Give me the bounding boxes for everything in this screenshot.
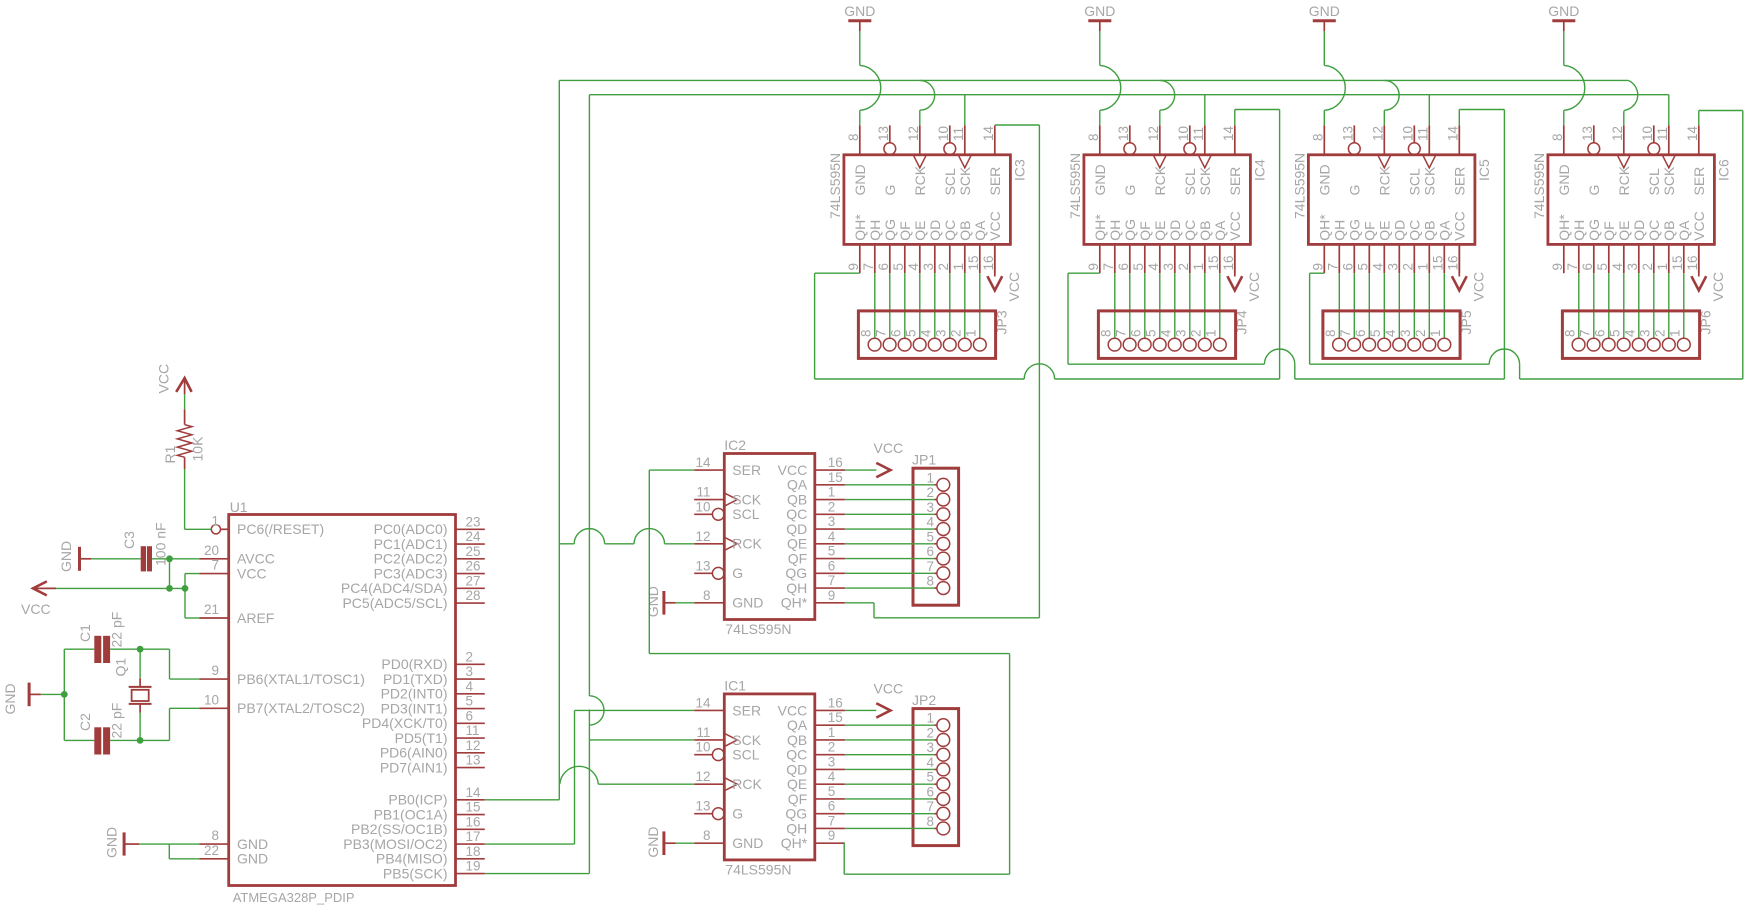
svg-text:PD0(RXD): PD0(RXD) <box>381 656 447 672</box>
pin 3 of JP3 <box>934 329 957 351</box>
svg-text:5: 5 <box>1368 329 1383 337</box>
svg-text:22 pF: 22 pF <box>109 703 125 739</box>
svg-text:QD: QD <box>786 761 807 777</box>
svg-text:2: 2 <box>828 499 836 514</box>
svg-text:G: G <box>1122 185 1138 196</box>
svg-text:C2: C2 <box>77 713 93 731</box>
pin 3 QD of IC1 <box>786 754 845 777</box>
svg-text:4: 4 <box>919 329 934 337</box>
power VCC at IC1 pin 16 <box>874 680 904 717</box>
connector JP6 header <box>1562 310 1713 358</box>
pin 4 QE of IC5 <box>1370 221 1392 274</box>
svg-text:VCC: VCC <box>874 680 904 696</box>
pin 11 PD5(T1) of U1 <box>395 723 485 746</box>
svg-text:1: 1 <box>951 263 966 271</box>
svg-text:16: 16 <box>1221 255 1236 270</box>
wire IC1 QF to JP2 pin 6 <box>845 798 937 800</box>
pin 2 of JP4 <box>1189 329 1212 351</box>
svg-text:IC4: IC4 <box>1251 159 1267 181</box>
svg-text:8: 8 <box>703 828 711 843</box>
svg-text:5: 5 <box>466 694 474 709</box>
svg-text:VCC: VCC <box>21 601 51 617</box>
pin 8 GND of IC3 <box>846 125 868 195</box>
pin 15 QA of IC2 <box>787 470 845 493</box>
pin 5 PD3(INT1) of U1 <box>381 694 485 717</box>
wire IC2 VCC pin to VCC symbol <box>845 469 876 471</box>
svg-text:8: 8 <box>703 588 711 603</box>
svg-text:9: 9 <box>846 263 861 271</box>
svg-text:8: 8 <box>1086 133 1101 141</box>
pin 12 RCK of IC6 <box>1610 125 1632 195</box>
pin 6 QG of IC5 <box>1340 219 1362 273</box>
svg-text:PC1(ADC1): PC1(ADC1) <box>374 536 448 552</box>
svg-text:GND: GND <box>2 683 18 714</box>
svg-text:GND: GND <box>1317 164 1333 195</box>
pin 1 of JP3 <box>964 329 987 351</box>
svg-text:3: 3 <box>1161 263 1176 271</box>
svg-text:7: 7 <box>926 799 934 814</box>
wire RCK tap to IC3 pin 12 <box>920 80 935 125</box>
svg-text:QB: QB <box>1197 221 1213 241</box>
pin 5 QF of IC1 <box>788 784 845 807</box>
svg-text:SCL: SCL <box>732 506 759 522</box>
svg-text:PC4(ADC4/SDA): PC4(ADC4/SDA) <box>341 580 448 596</box>
svg-text:2: 2 <box>1653 329 1668 337</box>
svg-text:2: 2 <box>926 725 934 740</box>
wire crystal to XTAL2 node <box>139 713 141 741</box>
wire IC1 QE to JP2 pin 5 <box>845 783 937 785</box>
svg-text:QA: QA <box>787 477 808 493</box>
svg-text:QB: QB <box>1422 221 1438 241</box>
svg-text:15: 15 <box>966 255 981 270</box>
svg-text:JP5: JP5 <box>1458 310 1474 334</box>
pin 4 of JP4 <box>1159 329 1182 351</box>
svg-text:12: 12 <box>906 126 921 141</box>
pin 7 of JP3 <box>873 329 896 351</box>
svg-text:PC0(ADC0): PC0(ADC0) <box>374 521 448 537</box>
pin 5 QF of IC5 <box>1355 221 1377 273</box>
svg-text:QF: QF <box>788 791 807 807</box>
pin 7 of JP6 <box>1577 329 1600 351</box>
pin 2 of JP1 <box>926 485 949 506</box>
pin 4 QE of IC4 <box>1146 221 1168 274</box>
wire IC2 QA to JP1 pin 1 <box>845 484 937 486</box>
svg-text:QF: QF <box>1601 221 1617 240</box>
power VCC arrow (left) <box>21 581 56 617</box>
pin 4 PD2(INT0) of U1 <box>381 679 485 702</box>
svg-text:QC: QC <box>786 747 807 763</box>
wire IC1 QB to JP2 pin 2 <box>845 739 937 741</box>
pin 1 of JP2 <box>926 711 949 732</box>
svg-text:QG: QG <box>785 565 807 581</box>
wire C1 right to XTAL1 node <box>110 648 140 650</box>
pin 8 GND of IC6 <box>1550 125 1572 195</box>
power VCC at IC5 pin 16 <box>1452 244 1487 301</box>
svg-text:4: 4 <box>466 679 474 694</box>
wire IC2 QB to JP1 pin 2 <box>845 499 937 501</box>
pin 16 VCC of IC1 <box>778 695 845 718</box>
svg-text:G: G <box>1586 185 1602 196</box>
pin 13 G of IC5 <box>1340 125 1362 195</box>
pin 4 of JP5 <box>1383 329 1406 351</box>
wire SCK tap to IC4 pin 11 <box>1204 95 1206 126</box>
pin 24 PC1(ADC1) of U1 <box>374 529 485 552</box>
svg-text:PC6(/RESET): PC6(/RESET) <box>237 521 324 537</box>
svg-text:4: 4 <box>926 515 934 530</box>
svg-text:QH: QH <box>1107 220 1123 241</box>
pin 5 QF of IC6 <box>1595 221 1617 273</box>
svg-text:4: 4 <box>1370 263 1385 271</box>
svg-text:QA: QA <box>1437 220 1453 241</box>
svg-text:QG: QG <box>1122 219 1138 241</box>
svg-text:RCK: RCK <box>1152 165 1168 195</box>
svg-text:GND: GND <box>732 835 763 851</box>
wire U1 PB5 to SCK net (vertical riser) <box>485 95 604 874</box>
pin 27 PC4(ADC4/SDA) of U1 <box>341 573 485 596</box>
svg-text:3: 3 <box>1625 263 1640 271</box>
pin 13 G of IC1 <box>694 799 743 822</box>
svg-text:GND: GND <box>645 826 661 857</box>
svg-text:SCK: SCK <box>1422 166 1438 195</box>
pin 7 of JP2 <box>926 799 949 820</box>
svg-text:PB2(SS/OC1B): PB2(SS/OC1B) <box>351 821 447 837</box>
svg-text:GND: GND <box>1092 164 1108 195</box>
svg-text:20: 20 <box>204 543 219 558</box>
wire IC1 QH to JP2 pin 8 <box>845 827 937 829</box>
svg-text:QA: QA <box>1212 220 1228 241</box>
pin 3 of JP5 <box>1398 329 1421 351</box>
svg-text:13: 13 <box>695 558 710 573</box>
pin 6 of JP1 <box>926 544 949 565</box>
svg-text:24: 24 <box>466 529 482 544</box>
svg-text:2: 2 <box>1413 329 1428 337</box>
svg-text:15: 15 <box>1670 255 1685 270</box>
svg-text:6: 6 <box>876 263 891 271</box>
svg-text:25: 25 <box>466 544 481 559</box>
svg-text:GND: GND <box>237 851 268 867</box>
pin 6 PD4(XCK/T0) of U1 <box>362 708 485 731</box>
wire IC3 outputs QH..QA to JP3 <box>875 273 980 338</box>
wire XTAL2 node to U1 PB7 <box>140 708 199 740</box>
pin 10 SCL of IC6 <box>1640 125 1662 195</box>
svg-text:QE: QE <box>1152 221 1168 241</box>
wire U1 PB3 to IC1 SER <box>485 710 694 844</box>
wire IC2 QH* to IC3 SER (riser) <box>845 125 1040 618</box>
pin 16 VCC of IC6 <box>1685 211 1707 273</box>
pin 14 SER of IC3 <box>981 125 1003 195</box>
pin 11 SCK of IC6 <box>1655 125 1677 195</box>
ground GND (top of IC3) <box>844 3 875 31</box>
wire IC1 QG to JP2 pin 7 <box>845 813 937 815</box>
svg-text:11: 11 <box>466 723 480 738</box>
svg-text:2: 2 <box>949 329 964 337</box>
svg-text:8: 8 <box>1310 133 1325 141</box>
wire AVCC junction down to VCC rail <box>169 559 171 589</box>
pin 2 QC of IC2 <box>786 499 845 522</box>
svg-text:1: 1 <box>828 485 836 500</box>
pin 3 QD of IC5 <box>1385 220 1407 273</box>
svg-text:21: 21 <box>204 602 219 617</box>
svg-text:12: 12 <box>1146 126 1161 141</box>
svg-text:7: 7 <box>828 813 836 828</box>
pin 16 VCC of IC2 <box>778 455 845 478</box>
wire IC1 QD to JP2 pin 4 <box>845 768 937 770</box>
svg-text:5: 5 <box>1143 329 1158 337</box>
svg-text:13: 13 <box>1116 126 1131 141</box>
svg-text:GND: GND <box>1309 3 1340 19</box>
svg-text:5: 5 <box>828 544 836 559</box>
svg-text:VCC: VCC <box>874 440 904 456</box>
svg-text:SCL: SCL <box>942 168 958 195</box>
wire IC1 QA to JP2 pin 1 <box>845 724 937 726</box>
svg-text:QD: QD <box>1631 220 1647 241</box>
pin 15 QA of IC4 <box>1206 220 1228 273</box>
svg-text:11: 11 <box>696 725 710 740</box>
pin 13 G of IC6 <box>1580 125 1602 195</box>
svg-text:SCL: SCL <box>1407 168 1423 195</box>
svg-text:QC: QC <box>942 220 958 241</box>
svg-text:QE: QE <box>1377 221 1393 241</box>
svg-text:SCL: SCL <box>1646 168 1662 195</box>
svg-text:VCC: VCC <box>1227 211 1243 241</box>
svg-text:VCC: VCC <box>1452 211 1468 241</box>
svg-text:G: G <box>732 806 743 822</box>
svg-text:GND: GND <box>844 3 875 19</box>
svg-text:5: 5 <box>903 329 918 337</box>
wire RCK tap to IC5 pin 12 <box>1384 80 1399 125</box>
svg-text:12: 12 <box>695 529 710 544</box>
wire GND net to IC3 pin 8 (hops buses) <box>860 31 881 125</box>
svg-text:1: 1 <box>1191 263 1206 271</box>
svg-text:14: 14 <box>1685 125 1700 141</box>
wire IC1 VCC pin to VCC symbol <box>845 709 876 711</box>
pin 7 of JP1 <box>926 559 949 580</box>
IC IC1 74LS595N body <box>724 677 815 877</box>
svg-text:7: 7 <box>861 263 876 271</box>
svg-text:PC2(ADC2): PC2(ADC2) <box>374 551 448 567</box>
IC IC2 74LS595N body <box>724 437 815 637</box>
pin 14 SER of IC5 <box>1445 125 1467 195</box>
svg-text:RCK: RCK <box>1616 165 1632 195</box>
pin 15 QA of IC1 <box>787 710 845 733</box>
svg-text:PB1(OC1A): PB1(OC1A) <box>374 806 448 822</box>
svg-text:4: 4 <box>828 529 836 544</box>
svg-text:PB0(ICP): PB0(ICP) <box>388 792 447 808</box>
svg-text:74LS595N: 74LS595N <box>827 153 843 219</box>
svg-text:17: 17 <box>466 829 481 844</box>
capacitor C1 22 pF <box>77 612 125 663</box>
svg-text:2: 2 <box>936 263 951 271</box>
ground GND (top of IC6) <box>1548 3 1579 31</box>
pin 7 QH of IC1 <box>786 813 845 836</box>
svg-text:14: 14 <box>466 785 482 800</box>
svg-text:GND: GND <box>103 827 119 858</box>
pin 9 QH* of IC2 <box>781 588 845 611</box>
wire GND to U1 pin 8 and pin 22 <box>139 844 199 859</box>
svg-text:5: 5 <box>926 529 934 544</box>
pin 1 of JP6 <box>1668 329 1691 351</box>
pin 10 SCL of IC4 <box>1176 125 1198 195</box>
pin 12 PD6(AIN0) of U1 <box>380 738 485 761</box>
svg-text:28: 28 <box>466 588 481 603</box>
pin 4 of JP6 <box>1623 329 1646 351</box>
svg-text:7: 7 <box>1325 263 1340 271</box>
svg-text:G: G <box>882 185 898 196</box>
svg-text:15: 15 <box>466 800 481 815</box>
pin 16 VCC of IC4 <box>1221 211 1243 273</box>
svg-text:3: 3 <box>466 664 474 679</box>
svg-text:4: 4 <box>1146 263 1161 271</box>
pin 4 QE of IC2 <box>787 529 845 552</box>
svg-text:18: 18 <box>466 844 481 859</box>
svg-text:8: 8 <box>846 133 861 141</box>
svg-text:SCK: SCK <box>732 491 761 507</box>
pin 3 QD of IC6 <box>1625 220 1647 273</box>
wire net SCK bus (line2) <box>589 95 1668 126</box>
svg-text:QC: QC <box>1646 220 1662 241</box>
svg-text:GND: GND <box>645 586 661 617</box>
junction on VCC rail <box>166 585 173 592</box>
svg-text:23: 23 <box>466 514 481 529</box>
pin 5 of JP2 <box>926 770 949 791</box>
svg-text:16: 16 <box>1685 255 1700 270</box>
pin 11 SCK of IC2 <box>694 485 762 508</box>
svg-text:QD: QD <box>927 220 943 241</box>
svg-text:14: 14 <box>695 695 711 710</box>
pin 1 QB of IC5 <box>1415 221 1437 274</box>
svg-text:5: 5 <box>926 770 934 785</box>
svg-text:QA: QA <box>972 220 988 241</box>
svg-text:2: 2 <box>1640 263 1655 271</box>
wire GND to C3 <box>91 558 141 560</box>
pin 6 of JP6 <box>1592 329 1615 351</box>
pin 28 PC5(ADC5/SCL) of U1 <box>342 588 484 611</box>
svg-text:8: 8 <box>1550 133 1565 141</box>
svg-text:GND: GND <box>1556 164 1572 195</box>
svg-text:74LS595N: 74LS595N <box>1531 153 1547 219</box>
pin 8 of JP6 <box>1562 329 1585 351</box>
wire XTAL1 node to crystal <box>139 649 141 678</box>
svg-text:9: 9 <box>211 663 219 678</box>
ground GND at C3 <box>58 541 91 572</box>
pin 21 AREF of U1 <box>199 602 274 626</box>
wire VCC rail <box>56 587 185 589</box>
svg-text:VCC: VCC <box>1246 272 1262 302</box>
pin 7 QH of IC4 <box>1101 220 1123 273</box>
wire IC2 QG to JP1 pin 7 <box>845 572 937 574</box>
pin 3 of JP1 <box>926 500 949 521</box>
pin 8 GND of IC1 <box>694 828 763 851</box>
svg-text:2: 2 <box>828 740 836 755</box>
svg-text:R1: R1 <box>162 445 178 463</box>
svg-text:1: 1 <box>1655 263 1670 271</box>
pin 9 QH* of IC4 <box>1086 214 1108 273</box>
svg-text:10: 10 <box>1176 126 1191 141</box>
pin 8 of JP3 <box>858 329 881 351</box>
svg-text:PD5(T1): PD5(T1) <box>395 730 448 746</box>
svg-text:10: 10 <box>204 692 219 707</box>
ground GND at IC2 pin 8 <box>645 586 676 617</box>
pin 12 RCK of IC4 <box>1146 125 1168 195</box>
svg-text:11: 11 <box>1655 127 1670 141</box>
svg-text:7: 7 <box>828 573 836 588</box>
pin 22 GND of U1 <box>199 843 268 867</box>
pin 1 QB of IC3 <box>951 221 973 274</box>
svg-text:GND: GND <box>852 164 868 195</box>
svg-text:10: 10 <box>936 126 951 141</box>
svg-text:2: 2 <box>1189 329 1204 337</box>
svg-text:VCC: VCC <box>778 462 808 478</box>
wire IC5 SER riser <box>1459 110 1504 380</box>
pin 2 of JP3 <box>949 329 972 351</box>
capacitor C2 22 pF <box>77 703 125 755</box>
svg-text:Q1: Q1 <box>113 658 129 677</box>
svg-text:8: 8 <box>926 574 934 589</box>
pin 5 of JP1 <box>926 529 949 550</box>
pin 2 QC of IC4 <box>1176 220 1198 273</box>
svg-text:QD: QD <box>1392 220 1408 241</box>
pin 5 of JP4 <box>1143 329 1166 351</box>
svg-text:14: 14 <box>981 125 996 141</box>
pin 11 SCK of IC3 <box>951 125 973 195</box>
svg-text:IC1: IC1 <box>724 677 746 693</box>
pin 5 of JP6 <box>1607 329 1630 351</box>
svg-text:JP2: JP2 <box>912 692 936 708</box>
svg-text:PD6(AIN0): PD6(AIN0) <box>380 745 448 761</box>
svg-text:SCL: SCL <box>1182 168 1198 195</box>
svg-text:3: 3 <box>934 329 949 337</box>
svg-text:QH*: QH* <box>781 835 808 851</box>
pin 16 VCC of IC3 <box>981 211 1003 273</box>
svg-text:QH: QH <box>1332 220 1348 241</box>
pin 11 SCK of IC5 <box>1415 125 1437 195</box>
svg-text:QH*: QH* <box>1317 214 1333 241</box>
pin 6 QG of IC3 <box>876 219 898 273</box>
wire IC2 RCK to RCK net (hops two wires) <box>559 529 694 544</box>
svg-text:SCK: SCK <box>1197 166 1213 195</box>
pin 10 SCL of IC5 <box>1400 125 1422 195</box>
pin 1 QB of IC4 <box>1191 221 1213 274</box>
wire GND net to IC6 pin 8 (hops buses) <box>1564 31 1585 125</box>
pin 2 QC of IC6 <box>1640 220 1662 273</box>
svg-text:1: 1 <box>211 513 219 528</box>
svg-text:PD4(XCK/T0): PD4(XCK/T0) <box>362 715 448 731</box>
svg-text:QH*: QH* <box>852 214 868 241</box>
pin 3 of JP4 <box>1174 329 1197 351</box>
pin 10 PB7(XTAL2/TOSC2) of U1 <box>199 692 365 716</box>
svg-text:6: 6 <box>828 558 836 573</box>
svg-text:2: 2 <box>1176 263 1191 271</box>
pin 6 QG of IC2 <box>785 558 844 581</box>
IC IC3 74LS595N body <box>827 153 1028 245</box>
svg-text:PD3(INT1): PD3(INT1) <box>381 700 448 716</box>
power VCC at IC4 pin 16 <box>1227 244 1262 301</box>
svg-text:QB: QB <box>957 221 973 241</box>
svg-text:3: 3 <box>1638 329 1653 337</box>
wire GND net to IC4 pin 8 (hops buses) <box>1100 31 1121 125</box>
svg-text:11: 11 <box>951 127 966 141</box>
svg-text:6: 6 <box>1340 263 1355 271</box>
svg-text:QE: QE <box>912 221 928 241</box>
svg-text:QE: QE <box>787 536 807 552</box>
svg-text:74LS595N: 74LS595N <box>725 621 791 637</box>
wire IC1 RCK to RCK net (hops risers) <box>560 766 694 784</box>
junction at AVCC net <box>166 555 173 562</box>
svg-text:SER: SER <box>1691 167 1707 196</box>
svg-text:13: 13 <box>1580 126 1595 141</box>
wire U1 PB0 to RCK net (vertical riser) <box>485 80 560 799</box>
svg-text:QD: QD <box>786 521 807 537</box>
